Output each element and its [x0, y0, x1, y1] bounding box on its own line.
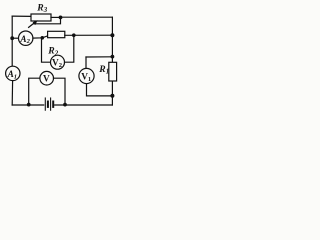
svg-text:R3: R3 [36, 3, 47, 15]
wire: A2 to R2 [33, 36, 48, 38]
svg-text:V: V [43, 75, 50, 85]
wire: left rail bottom (A1 to corner) [11, 81, 13, 105]
wire: V2 left lead [42, 38, 51, 62]
voltmeter V2 [51, 55, 65, 69]
svg-text:R1: R1 [98, 64, 109, 76]
wire: left rail top (corner to A1) [11, 16, 13, 66]
ammeter A2 [19, 31, 33, 45]
wire: V2 right lead [65, 35, 74, 62]
wire: bottom left to battery [12, 104, 44, 106]
wire: R2 right to rail [65, 34, 113, 36]
wire: right rail upper [111, 17, 113, 62]
wire: V1 bottom lead [87, 84, 113, 96]
ammeter A1 [6, 66, 20, 80]
wire: V left lead [29, 78, 40, 105]
resistor R1 [109, 62, 117, 81]
node: dot bottom right (V tap) [63, 103, 67, 107]
wire: V1 top lead [85, 57, 87, 69]
node: junction dot top (R3 right) [59, 16, 63, 20]
node: dot left of R2 (V2 tap) [41, 36, 45, 40]
node: dot on right rail (branch join) [110, 33, 114, 37]
node: dot right of R2 (V2 tap) [72, 33, 76, 37]
resistor R2 [48, 31, 65, 37]
node: dot bottom left (V tap) [27, 103, 31, 107]
svg-text:R2: R2 [47, 46, 58, 58]
rheostat R3 wiper wire [34, 17, 61, 23]
wire: R3 right to junction [51, 16, 61, 18]
battery GB [45, 98, 53, 110]
voltmeter V1 [79, 68, 94, 83]
wire: top to right corner [61, 16, 113, 18]
resistor R3 (rheostat box) [31, 14, 51, 21]
node: dot on left rail [10, 36, 14, 40]
node: dot on rail (V1 top tap) [111, 55, 115, 59]
node: dot on rail (V1 bottom tap) [110, 94, 114, 98]
voltmeter V [40, 71, 54, 85]
wire: V1 top to rail [86, 56, 112, 58]
wire: V right lead [54, 78, 66, 105]
wire: battery to bottom right corner [55, 104, 113, 106]
wire: top from left corner to R3 [12, 15, 31, 17]
wire: right rail lower (R1 bottom to corner) [111, 81, 113, 105]
wire: A2 branch from left rail [12, 37, 18, 39]
rheostat R3 wiper arrow [29, 20, 38, 27]
